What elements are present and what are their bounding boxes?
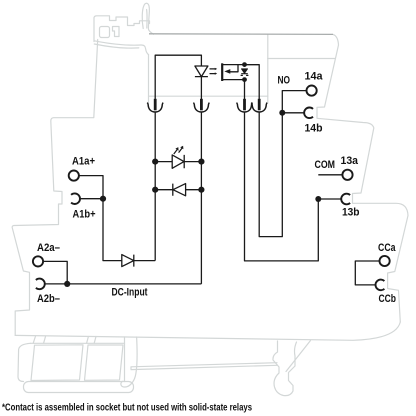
node right rail bottom <box>198 187 204 193</box>
left foot base bar <box>24 382 134 393</box>
opto U1 gate arrow line <box>227 65 238 72</box>
svg-text:A2b–: A2b– <box>37 293 60 305</box>
wire B (opto to NO) <box>259 112 282 237</box>
LED D2 arrowheads <box>175 146 183 151</box>
wire A (opto to COM) <box>245 112 319 261</box>
svg-text:*Contact is assembled in socke: *Contact is assembled in socket but not … <box>2 403 252 414</box>
LED D2 wire <box>155 161 201 163</box>
svg-text:A2a–: A2a– <box>37 242 60 254</box>
left foot hole 1 <box>31 345 83 381</box>
contact 1 pin <box>154 99 157 111</box>
node 13 junction <box>315 196 321 202</box>
wire left rail <box>154 112 156 261</box>
wire 13b <box>318 198 341 200</box>
terminal A2a circle <box>33 256 43 266</box>
wire A1b <box>80 198 103 200</box>
svg-text:13a: 13a <box>341 155 359 167</box>
opto U1 bottom lead <box>223 79 245 81</box>
wire A1b to diode loop <box>103 199 155 261</box>
wire DC-Input <box>45 283 202 285</box>
wire top loop <box>155 55 201 99</box>
label window bottom <box>268 58 336 60</box>
LED D2 arrows <box>174 148 183 154</box>
svg-text:COM: COM <box>315 159 336 171</box>
node opto top <box>242 62 247 67</box>
left foot top posts <box>33 337 96 344</box>
node opto bottom <box>242 77 247 82</box>
terminal A1a circle <box>69 171 79 181</box>
lever inner line <box>146 10 148 29</box>
left foot right hook <box>121 337 137 387</box>
wire A1a <box>79 176 103 199</box>
svg-text:DC-Input: DC-Input <box>112 287 148 299</box>
terminal A2b arc <box>36 279 45 290</box>
wire right rail upper <box>200 77 202 99</box>
right clip diagonal <box>286 341 311 372</box>
wire opto to contact3 <box>244 80 246 99</box>
node A1 junction <box>100 196 106 202</box>
wire opto to contact4 <box>245 65 260 99</box>
node left rail top <box>152 159 158 165</box>
svg-text:CCb: CCb <box>379 293 397 305</box>
label window seam vertical <box>267 34 269 58</box>
opto U1 zener triangle <box>242 69 248 73</box>
inner panel bottom line <box>149 95 268 97</box>
wire right rail <box>200 112 202 284</box>
black circuit <box>33 55 390 290</box>
left foot hole 2 <box>85 345 124 380</box>
svg-text:NO: NO <box>278 75 291 87</box>
terminal 13a circle <box>342 170 352 180</box>
module top edge (darker) <box>149 33 333 36</box>
lever finger <box>142 3 153 34</box>
left foot right hook left side <box>124 337 126 382</box>
LED U1 emission arrowheads <box>215 68 217 75</box>
wire 14b <box>282 112 304 114</box>
contact 1 cup <box>147 103 163 112</box>
node right rail top <box>198 159 204 165</box>
housing bottom edge <box>15 322 400 340</box>
seam curve lower <box>94 44 139 48</box>
housing left outer edge <box>12 40 98 336</box>
LED U1 emission dashes <box>210 69 216 74</box>
svg-text:A1b+: A1b+ <box>73 208 96 220</box>
terminal 14b arc <box>304 107 313 118</box>
diode D3 (reverse) <box>173 184 186 196</box>
wire A2a <box>43 261 67 284</box>
terminal CCa circle <box>380 256 390 266</box>
left foot outline <box>18 343 31 381</box>
opto U1 gate bar <box>221 63 223 81</box>
housing right edge <box>317 34 408 322</box>
contact 2 pin <box>200 99 203 111</box>
arrow head of opto gate <box>224 69 230 74</box>
node A2 junction <box>64 281 70 287</box>
din rail strip <box>131 363 277 370</box>
svg-text:A1a+: A1a+ <box>72 155 95 167</box>
contact 3 pin <box>243 99 246 111</box>
wire 14a <box>282 91 306 113</box>
inner panel left edge <box>148 55 150 103</box>
lever inner step shape <box>113 27 120 37</box>
seam curve upper <box>94 41 148 55</box>
svg-text:CCa: CCa <box>378 242 396 254</box>
terminal A1b arc <box>71 193 80 204</box>
contact 4 cup <box>251 103 267 112</box>
right clip <box>273 341 297 396</box>
contact 3 cup <box>237 103 253 112</box>
node 14 junction <box>279 110 285 116</box>
wire CCa-CCb jumper <box>355 261 379 285</box>
contact 4 pin <box>258 99 261 111</box>
lever inner hole <box>100 27 110 38</box>
left foot top edge <box>31 342 125 344</box>
svg-text:14a: 14a <box>305 70 324 82</box>
opto U1 zener bar <box>241 74 249 76</box>
terminal CCb arc <box>376 280 385 291</box>
wire 13a <box>318 174 342 176</box>
contact 2 cup <box>193 103 209 112</box>
svg-text:13b: 13b <box>342 207 360 219</box>
diode D1 (series input) <box>122 255 134 267</box>
node left rail bottom <box>152 187 158 193</box>
terminal 14a circle <box>307 86 317 96</box>
module lever assembly top-left <box>94 16 150 42</box>
terminal 13b arc <box>341 194 350 205</box>
LED U1 input triangle <box>195 66 208 77</box>
svg-text:14b: 14b <box>305 123 323 135</box>
diode D3 wire <box>155 189 201 191</box>
LED D2 (indicator) <box>172 155 184 168</box>
opto U1 top lead <box>223 64 259 66</box>
